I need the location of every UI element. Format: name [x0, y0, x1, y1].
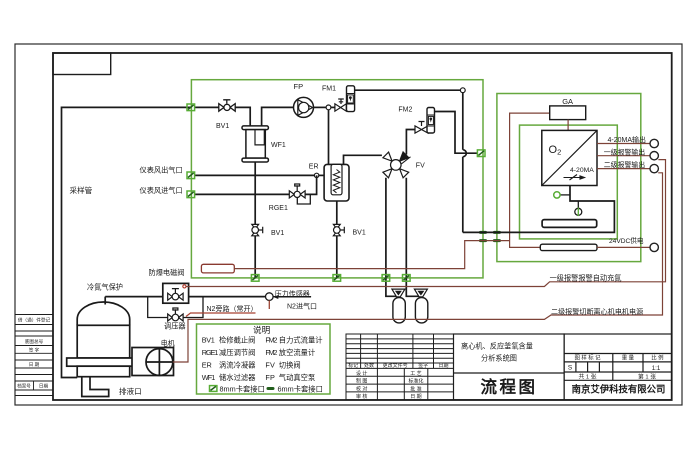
- GA box: [550, 106, 586, 120]
- svg-text:校 对: 校 对: [356, 385, 367, 392]
- svg-text:二级报警输出: 二级报警输出: [604, 160, 645, 169]
- 8mm connector (FM2 vent): [477, 150, 485, 157]
- solenoid valve symbol: [168, 289, 183, 301]
- terminal circle 一级报警输出: [650, 152, 658, 160]
- wire: sample drop with hop over vent line: [463, 93, 467, 233]
- svg-text:FV: FV: [416, 163, 425, 170]
- solenoid valve box 防爆电磁阀: [163, 283, 189, 303]
- label 压力传感器 with arrow: [273, 289, 311, 299]
- svg-text:BV1: BV1: [216, 123, 229, 130]
- 8mm connector (sample inlet): [187, 104, 195, 111]
- wire: sample line to BV1: [195, 106, 219, 108]
- O2 analyzer box: [542, 130, 597, 185]
- svg-text:档案号: 档案号: [17, 383, 31, 390]
- svg-text:FM2: FM2: [265, 335, 277, 344]
- valve FM1 inlet needle: [335, 99, 346, 111]
- top-left reference box: [53, 53, 111, 75]
- cabinet enclosure box: [191, 80, 483, 278]
- svg-text:南京艾伊科技有限公司: 南京艾伊科技有限公司: [572, 383, 666, 394]
- svg-text:RGE1: RGE1: [202, 348, 219, 357]
- flow meter FM1: [347, 86, 355, 112]
- 6mm connector (wire at cabinet wall): [479, 239, 487, 242]
- label N2旁路（常开） with leader: [186, 304, 257, 317]
- terminal circle 二级报警输出: [650, 164, 658, 172]
- svg-text:流程图: 流程图: [481, 377, 538, 397]
- legend 8mm symbol: [210, 386, 217, 392]
- svg-text:减压调节阀: 减压调节阀: [219, 348, 255, 357]
- svg-text:比 例: 比 例: [651, 354, 663, 362]
- svg-text:共 1 张: 共 1 张: [578, 373, 596, 381]
- svg-text:4-20MA: 4-20MA: [570, 167, 594, 174]
- flow meter FM2: [427, 108, 435, 134]
- legend 6mm symbol: [267, 387, 275, 390]
- wire: FV to exhaust funnel 1: [386, 178, 396, 296]
- svg-text:排液口: 排液口: [119, 386, 142, 396]
- svg-text:WF1: WF1: [271, 142, 286, 149]
- 8mm connector (air outlet): [187, 172, 195, 179]
- legend box 说明: [197, 324, 331, 394]
- wire: sample line to analyzer: [463, 186, 615, 233]
- 6mm connector (sample at analyzer wall): [493, 231, 501, 234]
- svg-text:ER: ER: [202, 360, 212, 369]
- svg-text:分析系统图: 分析系统图: [481, 354, 517, 363]
- svg-text:气动真空泵: 气动真空泵: [279, 373, 315, 382]
- drawing title texts: [461, 342, 537, 397]
- svg-text:标准化: 标准化: [408, 378, 423, 385]
- svg-text:储水过滤器: 储水过滤器: [219, 373, 256, 382]
- wire: 4-20MA output: [597, 143, 650, 145]
- inner border frame: [53, 53, 672, 400]
- wire: GA supply drop: [510, 113, 550, 247]
- svg-text:借（通）件登记: 借（通）件登记: [18, 317, 51, 324]
- sensor fitting circle (green): [554, 192, 570, 198]
- wire: motor alarm line (二级): [173, 173, 663, 362]
- svg-text:6mm卡套接口: 6mm卡套接口: [278, 384, 323, 393]
- title block middle section: [454, 334, 565, 400]
- wire: instrument air inlet line to RGE1: [195, 193, 289, 195]
- wire: second alarm output: [597, 168, 650, 170]
- svg-text:批 准: 批 准: [410, 385, 421, 392]
- svg-text:4-20MA输出: 4-20MA输出: [608, 135, 647, 144]
- legend rows: [202, 335, 323, 382]
- valve RGE1: [289, 184, 305, 198]
- svg-text:更改文件号: 更改文件号: [383, 362, 408, 369]
- terminal fitting circle on sample line: [575, 201, 582, 216]
- svg-text:FM2: FM2: [398, 107, 412, 114]
- svg-text:仪表风进气口: 仪表风进气口: [140, 186, 183, 195]
- svg-text:切换阀: 切换阀: [279, 360, 301, 369]
- svg-text:BV1: BV1: [353, 229, 366, 236]
- svg-text:第 1 张: 第 1 张: [638, 373, 656, 381]
- svg-text:离心机、反应釜氧含量: 离心机、反应釜氧含量: [461, 342, 533, 351]
- tank flange: [67, 358, 144, 366]
- svg-text:FP: FP: [294, 82, 304, 91]
- valve BV1 (WF1 drain): [252, 224, 263, 235]
- svg-text:24VDC供电: 24VDC供电: [609, 236, 644, 245]
- pressure sensor 压力传感器: [266, 293, 274, 301]
- svg-text:一级报警输出: 一级报警输出: [604, 147, 645, 156]
- wire: 24VDC to terminal: [597, 246, 650, 248]
- node at ER inlet: [314, 173, 318, 177]
- exhaust funnel 1: [392, 289, 405, 297]
- svg-text:采样管: 采样管: [70, 185, 93, 195]
- svg-text:FM2: FM2: [265, 348, 277, 357]
- wire: RGE1 feedback loop: [297, 194, 310, 204]
- svg-text:RGE1: RGE1: [269, 205, 288, 212]
- wire: node to ER left: [319, 174, 324, 176]
- 6mm connector (sample at cabinet wall): [479, 231, 487, 234]
- tank body: [77, 325, 130, 358]
- svg-text:涡流冷凝器: 涡流冷凝器: [219, 360, 256, 369]
- svg-text:二级报警切断离心机电机电源: 二级报警切断离心机电机电源: [551, 307, 643, 316]
- node junction after FP: [326, 105, 331, 110]
- 8mm connector (vent line 1): [382, 275, 390, 282]
- svg-text:审 核: 审 核: [356, 393, 367, 400]
- drain pipe 排液口: [82, 377, 109, 397]
- svg-text:工 艺: 工 艺: [410, 371, 421, 377]
- svg-text:BV1: BV1: [271, 230, 284, 237]
- wire: FP to node: [314, 106, 327, 108]
- svg-text:仪表风出气口: 仪表风出气口: [140, 165, 183, 174]
- filter WF1: [242, 126, 268, 162]
- svg-text:压力传感器: 压力传感器: [275, 289, 310, 298]
- valve BV1 (top): [219, 100, 235, 111]
- tank lower body: [77, 366, 130, 377]
- svg-text:一级报警报警自动充氮: 一级报警报警自动充氮: [550, 274, 622, 283]
- valve BV1 (ER drain): [333, 224, 344, 235]
- 8mm connector (WF1 drain): [251, 275, 259, 282]
- terminal circle 4-20MA输出: [650, 139, 658, 147]
- svg-text:冷氮气保护: 冷氮气保护: [87, 283, 123, 292]
- svg-text:FM1: FM1: [322, 86, 336, 93]
- svg-text:设 计: 设 计: [356, 370, 367, 377]
- svg-text:日 期: 日 期: [410, 394, 421, 400]
- terminal circle 24VDC: [650, 243, 658, 251]
- analyzer outer enclosure box: [497, 94, 641, 262]
- svg-text:日期: 日期: [438, 363, 448, 369]
- analyzer inner enclosure box: [520, 125, 618, 239]
- wire: BV1 to WF1 inlet elbow: [235, 107, 293, 126]
- svg-text:签 字: 签 字: [29, 346, 40, 352]
- exhaust funnel 2: [414, 289, 427, 297]
- svg-text:GA: GA: [562, 97, 573, 106]
- nitrogen pipe into dome: [104, 297, 106, 305]
- svg-text:S: S: [568, 365, 573, 372]
- wire: node to ER inlet drop: [328, 110, 330, 165]
- wire: FM1 outlet to corner node: [355, 89, 461, 91]
- valve FV (switching valve): [383, 152, 411, 178]
- adjustable arrow symbol: [564, 175, 585, 181]
- svg-text:制 图: 制 图: [356, 378, 367, 385]
- title block change-record texts: [348, 362, 448, 400]
- svg-text:日 期: 日 期: [29, 362, 40, 368]
- svg-text:处数: 处数: [364, 362, 374, 369]
- 8mm connector (vent line 2): [403, 275, 411, 282]
- svg-text:日期: 日期: [39, 384, 49, 390]
- wire: WF1 drain line: [254, 162, 256, 278]
- 24VDC fuse block: [540, 244, 597, 250]
- title block right texts: [568, 354, 664, 381]
- exhaust cylinder 1: [393, 298, 405, 323]
- exhaust cylinder 2: [415, 298, 427, 323]
- left margin strip texts: [17, 317, 50, 390]
- sampling pipe 采样管: [62, 107, 192, 377]
- svg-text:FV: FV: [265, 360, 275, 369]
- wire: solenoid alarm line (一级): [186, 160, 666, 287]
- svg-text:重 量: 重 量: [622, 354, 635, 362]
- svg-text:自力式流量计: 自力式流量计: [279, 335, 323, 344]
- valve FM2 inlet needle: [415, 122, 428, 134]
- wire: regulator bypass: [148, 297, 203, 318]
- 8mm connector (ER drain): [333, 275, 341, 282]
- svg-text:WF1: WF1: [202, 373, 216, 382]
- sensor wire stub: [268, 300, 270, 309]
- svg-text:N2旁路（常开）: N2旁路（常开）: [207, 304, 258, 313]
- relay box (empty red rect): [201, 264, 234, 273]
- solenoid coil terminal: [183, 285, 186, 288]
- outer border frame: [15, 44, 682, 405]
- wire: GA to O2 analyzer: [567, 120, 569, 131]
- wire: relay to 24VDC join: [234, 241, 509, 269]
- svg-text:8mm卡套接口: 8mm卡套接口: [220, 384, 265, 393]
- tank dome: [77, 302, 130, 325]
- svg-text:放空流量计: 放空流量计: [279, 348, 315, 357]
- left margin strip cells: [15, 315, 53, 396]
- wire: first alarm output: [597, 155, 650, 157]
- 8mm connector (air inlet): [187, 191, 195, 198]
- wire: ER outlet to FV: [344, 155, 382, 164]
- svg-text:调压器: 调压器: [164, 322, 186, 331]
- svg-text:N2进气口: N2进气口: [287, 301, 317, 310]
- wire: N2 line after sensor: [273, 296, 311, 298]
- svg-text:检修截止阀: 检修截止阀: [219, 335, 255, 344]
- terminal strip: [542, 220, 597, 228]
- cooler ER: [324, 164, 349, 201]
- svg-text:电机: 电机: [161, 338, 175, 347]
- wire: node to FM1 valve: [331, 106, 335, 108]
- node at sample drop corner: [460, 88, 465, 93]
- svg-text:签字: 签字: [418, 362, 428, 369]
- svg-text:BV1: BV1: [202, 335, 215, 344]
- title block right section: [564, 334, 672, 400]
- valve 调压器: [168, 308, 183, 321]
- svg-text:FP: FP: [265, 373, 275, 382]
- svg-text:底图总号: 底图总号: [25, 338, 44, 345]
- svg-text:标记: 标记: [348, 362, 358, 369]
- title block change-record table: [346, 334, 454, 400]
- wire: ER drain line: [336, 201, 338, 278]
- svg-text:1:1: 1:1: [652, 365, 661, 372]
- wire: FV riser to FM2 valve: [406, 130, 415, 155]
- 6mm connector (wire at analyzer wall): [493, 239, 501, 242]
- wire: N2 main line: [105, 296, 265, 298]
- svg-text:防爆电磁阀: 防爆电磁阀: [149, 268, 185, 277]
- wire: instrument air outlet line: [195, 174, 314, 176]
- wire: FM2 vent to cabinet wall: [435, 112, 478, 154]
- wire: RGE1 outlet and riser to node: [305, 175, 317, 194]
- svg-text:说明: 说明: [253, 324, 270, 335]
- svg-text:图 样 标 记: 图 样 标 记: [574, 354, 601, 362]
- motor mount block: [132, 348, 174, 376]
- pump FP: [294, 97, 314, 117]
- wire: FV to exhaust funnel 2: [406, 178, 419, 296]
- svg-text:ER: ER: [309, 163, 319, 170]
- motor 电机: [146, 349, 173, 376]
